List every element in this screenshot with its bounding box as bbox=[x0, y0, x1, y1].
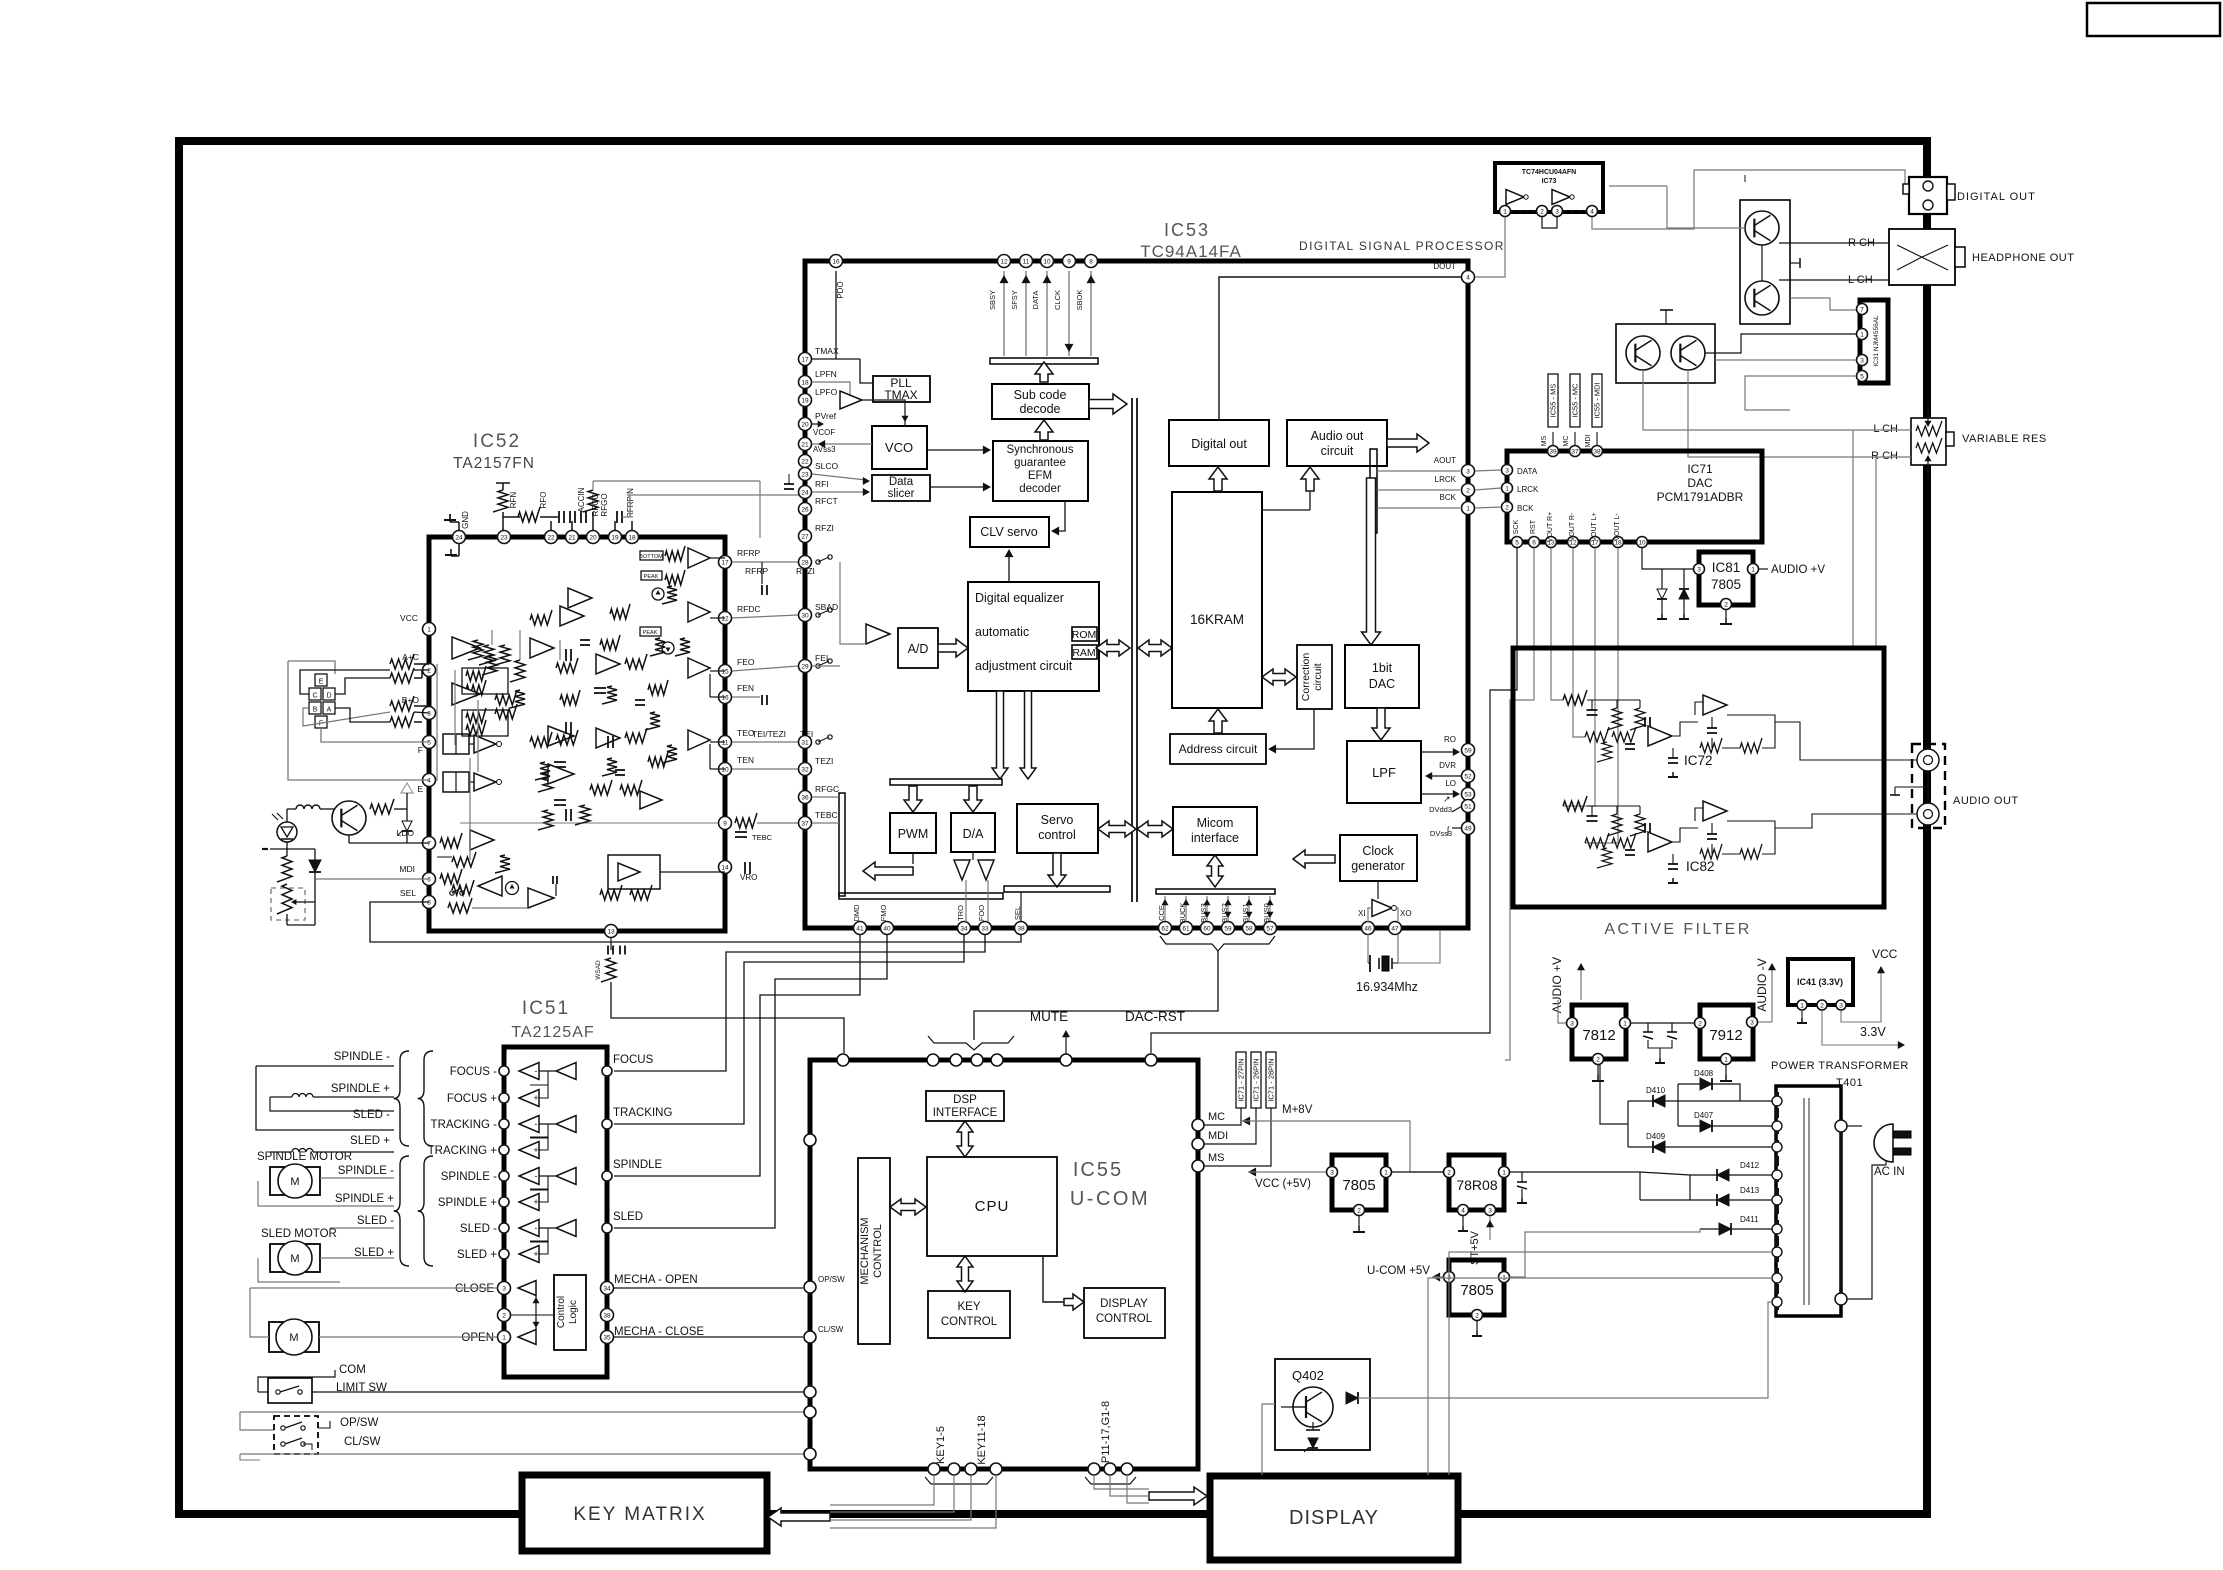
svg-text:SLED -: SLED - bbox=[357, 1215, 394, 1227]
svg-text:PVref: PVref bbox=[815, 411, 837, 421]
boxed label IC71-28PIN bbox=[1266, 1052, 1276, 1108]
svg-text:DISPLAY: DISPLAY bbox=[1289, 1507, 1379, 1529]
wire LO bbox=[1421, 793, 1456, 795]
wire MECHA-OPEN bbox=[614, 1287, 803, 1289]
zener diode bbox=[1308, 1438, 1318, 1448]
IC71 left pins bbox=[1502, 465, 1513, 476]
transformer taps bbox=[1772, 1096, 1782, 1106]
svg-text:22: 22 bbox=[801, 458, 809, 465]
connector DIGITAL OUT bbox=[1909, 177, 1947, 214]
variable resistor box bbox=[1911, 418, 1946, 465]
svg-text:16: 16 bbox=[721, 694, 729, 701]
svg-text:IC51: IC51 bbox=[522, 998, 570, 1019]
wire bbox=[710, 670, 725, 672]
svg-text:Micom: Micom bbox=[1197, 816, 1234, 830]
svg-text:21: 21 bbox=[568, 534, 576, 541]
svg-text:13: 13 bbox=[607, 928, 615, 935]
capacitor bbox=[594, 687, 606, 689]
IC51 side pins bbox=[499, 1066, 509, 1076]
sample-hold box bbox=[443, 734, 469, 754]
svg-text:-: - bbox=[535, 1119, 538, 1129]
wire bbox=[965, 880, 967, 922]
svg-text:2: 2 bbox=[1475, 1312, 1479, 1319]
op-amp bbox=[596, 654, 620, 674]
svg-text:R CH: R CH bbox=[1871, 450, 1898, 462]
capacitor bbox=[565, 649, 567, 661]
svg-text:7912: 7912 bbox=[1709, 1027, 1742, 1044]
svg-text:IC71 - 28PIN: IC71 - 28PIN bbox=[1267, 1058, 1276, 1101]
wire bbox=[414, 663, 429, 665]
hollow arrow bbox=[1149, 1487, 1207, 1505]
svg-text:POWER TRANSFORMER: POWER TRANSFORMER bbox=[1771, 1060, 1909, 1072]
svg-text:TC74HCU04AFN: TC74HCU04AFN bbox=[1522, 169, 1576, 176]
IC52 pin 13 bbox=[605, 925, 618, 938]
svg-text:20: 20 bbox=[801, 421, 809, 428]
svg-text:XO: XO bbox=[1400, 909, 1412, 918]
svg-text:Servo: Servo bbox=[1041, 813, 1074, 827]
resistor bbox=[575, 805, 590, 825]
IC55 right pins bbox=[1192, 1119, 1204, 1131]
boxed label IC71-26PIN bbox=[1251, 1052, 1261, 1108]
op-amp LPF bbox=[840, 391, 862, 409]
open triangle bbox=[401, 783, 413, 793]
svg-text:RFGC: RFGC bbox=[815, 784, 839, 794]
svg-text:IC55 - MC: IC55 - MC bbox=[1571, 383, 1580, 418]
wire M+8V bbox=[1242, 1117, 1250, 1126]
resistor bbox=[1916, 421, 1942, 436]
block Digital equalizer bbox=[968, 582, 1099, 691]
wire bbox=[240, 1411, 810, 1413]
wire bbox=[812, 474, 866, 480]
svg-text:F: F bbox=[418, 745, 423, 755]
svg-text:3: 3 bbox=[502, 1285, 506, 1292]
svg-text:AC IN: AC IN bbox=[1874, 1166, 1905, 1178]
svg-text:FOO: FOO bbox=[977, 905, 986, 921]
IC52 left pins bbox=[423, 623, 436, 636]
svg-text:Q402: Q402 bbox=[1292, 1368, 1324, 1383]
block Audio out circuit bbox=[1287, 420, 1387, 466]
transformer primary bbox=[1840, 1126, 1842, 1299]
IC73 pins bbox=[1500, 206, 1511, 217]
capacitor bbox=[555, 884, 557, 896]
wire bbox=[732, 741, 798, 743]
svg-text:IC81: IC81 bbox=[1712, 560, 1741, 575]
IC52 right pins bbox=[719, 556, 732, 569]
value label PEAK bbox=[640, 627, 661, 636]
svg-text:CL/SW: CL/SW bbox=[344, 1436, 381, 1448]
resistor bbox=[648, 752, 668, 767]
capacitor bbox=[784, 483, 794, 485]
wire bbox=[660, 871, 725, 873]
svg-text:3: 3 bbox=[1570, 1020, 1574, 1027]
svg-text:23: 23 bbox=[801, 471, 809, 478]
svg-text:SPINDLE +: SPINDLE + bbox=[335, 1193, 394, 1205]
wire bbox=[812, 491, 866, 493]
svg-text:38: 38 bbox=[1593, 448, 1601, 455]
svg-text:DIGITAL SIGNAL PROCESSOR: DIGITAL SIGNAL PROCESSOR bbox=[1299, 239, 1505, 253]
current source bbox=[652, 588, 664, 600]
op-amp bbox=[452, 637, 480, 659]
wire bbox=[1761, 245, 1763, 281]
svg-text:3.3V: 3.3V bbox=[1860, 1025, 1886, 1039]
regulator IC81 7805 bbox=[1699, 552, 1753, 605]
block PWM bbox=[890, 813, 936, 853]
wire bbox=[732, 561, 798, 563]
svg-text:2: 2 bbox=[502, 1312, 506, 1319]
wire bbox=[1927, 771, 1929, 803]
block Synchronous EFM decoder bbox=[993, 441, 1088, 501]
svg-text:MUTE: MUTE bbox=[1030, 1009, 1068, 1024]
svg-text:2: 2 bbox=[1505, 504, 1509, 511]
resistor bbox=[530, 610, 552, 625]
svg-text:MS: MS bbox=[1208, 1152, 1225, 1164]
svg-text:SLED MOTOR: SLED MOTOR bbox=[261, 1228, 337, 1240]
svg-text:adjustment circuit: adjustment circuit bbox=[975, 659, 1073, 673]
svg-text:6: 6 bbox=[427, 876, 431, 883]
op-amp bbox=[478, 876, 502, 896]
capacitor bbox=[744, 862, 746, 874]
bracket bbox=[1085, 1477, 1136, 1484]
svg-text:19: 19 bbox=[611, 534, 619, 541]
wire bbox=[1643, 370, 1790, 430]
svg-text:RST: RST bbox=[1530, 519, 1537, 534]
svg-text:LPF: LPF bbox=[1372, 765, 1396, 780]
micom bus pin arrows bbox=[1164, 896, 1166, 921]
op-amp bbox=[866, 624, 890, 644]
svg-text:37: 37 bbox=[801, 820, 809, 827]
transistor-array IC51 outline bbox=[504, 1047, 607, 1377]
svg-text:3: 3 bbox=[1466, 468, 1470, 475]
svg-text:KEY MATRIX: KEY MATRIX bbox=[573, 1504, 706, 1525]
svg-text:D407: D407 bbox=[1694, 1111, 1714, 1120]
hollow arrow bbox=[964, 786, 982, 812]
resistor bbox=[448, 898, 472, 913]
wire VOUT L+ bbox=[1563, 548, 1595, 806]
border frame bbox=[179, 141, 1927, 1514]
svg-text:CONTROL: CONTROL bbox=[1096, 1313, 1153, 1325]
block VCO bbox=[872, 426, 927, 469]
svg-text:automatic: automatic bbox=[975, 625, 1029, 639]
boxed label IC55-MS bbox=[1548, 374, 1558, 427]
DAC IC71 outline bbox=[1507, 451, 1762, 542]
svg-text:38: 38 bbox=[1017, 925, 1025, 932]
svg-text:1: 1 bbox=[1751, 566, 1755, 573]
svg-text:47: 47 bbox=[1391, 925, 1399, 932]
svg-text:7: 7 bbox=[1860, 306, 1864, 313]
svg-text:LPFO: LPFO bbox=[815, 387, 838, 397]
wire DVss3 bbox=[1452, 827, 1462, 829]
wire bbox=[1790, 298, 1856, 310]
resistor bbox=[538, 772, 553, 792]
capacitor bbox=[1521, 1172, 1523, 1182]
7812 pins bbox=[1567, 1018, 1578, 1029]
svg-text:MECHA - CLOSE: MECHA - CLOSE bbox=[614, 1326, 704, 1338]
wire bbox=[1847, 1125, 1862, 1127]
svg-text:BCK: BCK bbox=[1440, 493, 1457, 502]
wire bbox=[1449, 1252, 1772, 1475]
wire bbox=[1281, 1406, 1292, 1408]
hollow arrow bbox=[1209, 467, 1227, 491]
wire bbox=[1627, 1101, 1629, 1147]
svg-text:slicer: slicer bbox=[888, 488, 915, 500]
svg-text:AUDIO +V: AUDIO +V bbox=[1771, 564, 1825, 576]
hollow arrow bbox=[768, 1508, 830, 1526]
svg-text:61: 61 bbox=[1182, 925, 1190, 932]
block DSP INTERFACE bbox=[926, 1091, 1004, 1121]
op-amp bbox=[640, 791, 662, 809]
wire bbox=[414, 669, 429, 671]
svg-text:31: 31 bbox=[801, 739, 809, 746]
svg-text:ACTIVE FILTER: ACTIVE FILTER bbox=[1604, 921, 1751, 938]
svg-text:SBSY: SBSY bbox=[988, 290, 997, 310]
svg-text:ROM: ROM bbox=[1072, 629, 1097, 641]
svg-text:8: 8 bbox=[1089, 258, 1093, 265]
IC55 top pins bbox=[837, 1054, 849, 1066]
svg-text:P11-17,G1-8: P11-17,G1-8 bbox=[1100, 1401, 1112, 1463]
bracket bbox=[928, 1036, 1014, 1050]
svg-text:2: 2 bbox=[1724, 601, 1728, 608]
svg-text:D412: D412 bbox=[1740, 1161, 1760, 1170]
wire bbox=[469, 743, 474, 745]
wire bbox=[1475, 217, 1505, 277]
wire bbox=[1558, 1000, 1566, 1023]
resistor RFN bbox=[493, 490, 508, 512]
svg-text:M+8V: M+8V bbox=[1282, 1104, 1313, 1116]
svg-text:RFDC: RFDC bbox=[737, 604, 761, 614]
svg-text:18: 18 bbox=[628, 534, 636, 541]
svg-text:26: 26 bbox=[801, 506, 809, 513]
svg-text:TEN: TEN bbox=[737, 755, 754, 765]
svg-text:34: 34 bbox=[960, 925, 968, 932]
resistor bbox=[277, 856, 292, 882]
svg-text:GND: GND bbox=[461, 511, 470, 529]
svg-text:+: + bbox=[533, 1197, 538, 1207]
regulator 78R08 bbox=[1449, 1155, 1504, 1210]
svg-text:Digital equalizer: Digital equalizer bbox=[975, 591, 1064, 605]
block DISPLAY CONTROL bbox=[1084, 1288, 1165, 1338]
capacitor bbox=[554, 761, 566, 763]
svg-text:decoder: decoder bbox=[1019, 483, 1061, 495]
svg-text:9: 9 bbox=[1067, 258, 1071, 265]
wire bbox=[1377, 470, 1460, 472]
svg-text:14: 14 bbox=[721, 864, 729, 871]
resistor bbox=[510, 660, 525, 682]
capacitor ACCIN bbox=[580, 511, 582, 523]
wire bbox=[710, 741, 725, 743]
svg-text:34: 34 bbox=[603, 1285, 611, 1292]
inductor bbox=[292, 1149, 313, 1152]
boxed label IC71-27PIN bbox=[1236, 1052, 1246, 1108]
wire bbox=[1475, 470, 1501, 471]
block Clock generator bbox=[1340, 835, 1417, 881]
svg-text:DATA: DATA bbox=[1517, 467, 1538, 476]
svg-text:FEI: FEI bbox=[815, 653, 828, 663]
wire bbox=[288, 661, 335, 674]
regulator 7912 bbox=[1700, 1005, 1753, 1059]
value label BOTTOM bbox=[640, 551, 663, 560]
capacitor bbox=[635, 699, 645, 701]
svg-text:VCO: VCO bbox=[885, 440, 913, 455]
svg-text:51: 51 bbox=[1464, 803, 1472, 810]
svg-text:BOTTOM: BOTTOM bbox=[639, 554, 663, 560]
wire DVdd3 bbox=[1452, 806, 1462, 812]
block Sub code decode bbox=[992, 384, 1089, 419]
svg-text:22: 22 bbox=[547, 534, 555, 541]
block 16KRAM bbox=[1172, 492, 1262, 708]
svg-text:2: 2 bbox=[427, 667, 431, 674]
wire bbox=[1511, 210, 1536, 212]
svg-text:SPINDLE: SPINDLE bbox=[613, 1159, 663, 1171]
wire bbox=[300, 670, 390, 694]
svg-text:DAC-RST: DAC-RST bbox=[1125, 1009, 1185, 1024]
resistor bbox=[452, 880, 474, 895]
resistor RFO bbox=[518, 507, 540, 522]
IC31 pins bbox=[1857, 304, 1868, 315]
IC81 pins bbox=[1694, 564, 1705, 575]
svg-text:6: 6 bbox=[1532, 539, 1536, 546]
svg-text:1: 1 bbox=[1623, 1020, 1627, 1027]
diode D413 bbox=[1717, 1194, 1729, 1206]
svg-text:32: 32 bbox=[801, 766, 809, 773]
svg-text:circuit: circuit bbox=[1312, 663, 1324, 691]
svg-text:A/D: A/D bbox=[908, 642, 929, 656]
wire bbox=[1358, 1302, 1772, 1398]
svg-text:4: 4 bbox=[1466, 274, 1470, 281]
title box top-right bbox=[2087, 3, 2220, 36]
svg-text:SPINDLE -: SPINDLE - bbox=[441, 1171, 497, 1183]
op-amp bbox=[528, 888, 554, 908]
svg-text:RO: RO bbox=[1444, 735, 1456, 744]
svg-text:DOUT: DOUT bbox=[1433, 262, 1456, 271]
resistor bbox=[662, 586, 677, 604]
7805 pins bbox=[1327, 1167, 1338, 1178]
svg-text:VRO: VRO bbox=[740, 873, 757, 882]
svg-text:3: 3 bbox=[1488, 1207, 1492, 1214]
transistor Q headphone L bbox=[1745, 281, 1779, 315]
wire bbox=[436, 664, 438, 781]
svg-text:12: 12 bbox=[1000, 258, 1008, 265]
svg-text:1: 1 bbox=[502, 1334, 506, 1341]
svg-text:EFM: EFM bbox=[1028, 470, 1052, 482]
wire VOUT R- bbox=[1573, 548, 1585, 737]
svg-text:1: 1 bbox=[1724, 1056, 1728, 1063]
svg-text:FOCUS -: FOCUS - bbox=[450, 1066, 497, 1078]
svg-text:TRO: TRO bbox=[956, 905, 965, 921]
transformer T401 bbox=[1776, 1086, 1841, 1316]
resistor bbox=[645, 712, 660, 730]
capacitor bbox=[558, 511, 560, 523]
svg-text:AUDIO OUT: AUDIO OUT bbox=[1953, 795, 2019, 807]
svg-text:VOUT L-: VOUT L- bbox=[1614, 513, 1621, 541]
zener diode bbox=[1657, 589, 1667, 599]
resistor bbox=[648, 680, 668, 695]
wire bbox=[1321, 1359, 1323, 1392]
wire bbox=[472, 907, 528, 909]
IC53 bottom pins bbox=[854, 922, 867, 935]
svg-text:1: 1 bbox=[1860, 331, 1864, 338]
svg-text:MDI: MDI bbox=[1208, 1130, 1228, 1142]
svg-text:SPINDLE MOTOR: SPINDLE MOTOR bbox=[257, 1151, 352, 1163]
wire bbox=[540, 516, 558, 518]
svg-text:AUDIO -V: AUDIO -V bbox=[1755, 958, 1769, 1011]
wire bbox=[1055, 501, 1065, 531]
diode D407 bbox=[1700, 1120, 1712, 1132]
wire bbox=[1775, 814, 1917, 828]
boxed label IC55-MC bbox=[1570, 374, 1580, 427]
subcode pin arrows bbox=[1003, 271, 1005, 356]
wire bbox=[732, 696, 760, 698]
svg-text:78R08: 78R08 bbox=[1456, 1177, 1497, 1193]
svg-text:17: 17 bbox=[801, 356, 809, 363]
svg-text:24: 24 bbox=[801, 489, 809, 496]
bus lines bbox=[1131, 398, 1133, 902]
bracket bbox=[925, 1477, 993, 1484]
wire bbox=[1667, 186, 1745, 228]
svg-text:10: 10 bbox=[1638, 539, 1646, 546]
svg-text:SEL: SEL bbox=[400, 888, 416, 898]
svg-text:11: 11 bbox=[722, 739, 729, 746]
wire bbox=[862, 400, 905, 426]
svg-text:1: 1 bbox=[1384, 1169, 1388, 1176]
svg-text:U-COM: U-COM bbox=[1070, 1188, 1150, 1210]
block KEY CONTROL bbox=[928, 1291, 1010, 1338]
svg-text:+: + bbox=[533, 1145, 538, 1155]
bus bar bbox=[990, 358, 1098, 364]
svg-text:SLCO: SLCO bbox=[815, 461, 839, 471]
svg-text:PEAK: PEAK bbox=[644, 574, 659, 580]
transformer core bbox=[1803, 1098, 1805, 1305]
svg-text:62: 62 bbox=[1161, 925, 1169, 932]
inverter bbox=[1506, 190, 1524, 205]
svg-text:TEI/TEZI: TEI/TEZI bbox=[752, 729, 786, 739]
svg-text:49: 49 bbox=[1464, 825, 1472, 832]
brace bbox=[394, 1156, 409, 1266]
svg-text:DATA: DATA bbox=[1031, 291, 1040, 310]
wire bbox=[732, 666, 798, 671]
capacitor RFRPIN bbox=[616, 511, 618, 523]
wire bbox=[1852, 430, 1854, 465]
svg-text:LRCK: LRCK bbox=[1435, 475, 1457, 484]
svg-text:RFRP: RFRP bbox=[737, 548, 760, 558]
svg-text:-: - bbox=[535, 1066, 538, 1076]
bus bar PWM bbox=[890, 779, 1002, 785]
svg-text:3: 3 bbox=[1697, 566, 1701, 573]
transistor Q bbox=[1671, 336, 1705, 370]
svg-text:10: 10 bbox=[1043, 258, 1051, 265]
IC53 top pins bbox=[830, 255, 843, 268]
svg-text:A: A bbox=[327, 707, 332, 714]
switch OP/CL dashed bbox=[274, 1416, 318, 1454]
svg-text:DSP: DSP bbox=[953, 1094, 977, 1106]
regulator 7812 bbox=[1572, 1005, 1626, 1059]
wire bbox=[1744, 175, 1746, 182]
svg-text:16KRAM: 16KRAM bbox=[1190, 612, 1244, 627]
block Data slicer bbox=[872, 475, 930, 501]
svg-text:VOUT R-: VOUT R- bbox=[1569, 512, 1576, 541]
svg-text:28: 28 bbox=[801, 559, 809, 566]
svg-text:HEADPHONE OUT: HEADPHONE OUT bbox=[1972, 252, 2074, 264]
svg-text:U-COM +5V: U-COM +5V bbox=[1367, 1265, 1430, 1277]
wire bbox=[1476, 1321, 1478, 1331]
transistor Q402 bbox=[1293, 1387, 1333, 1427]
svg-text:FOCUS +: FOCUS + bbox=[447, 1093, 497, 1105]
svg-text:KEY: KEY bbox=[957, 1301, 980, 1313]
transistor Q headphone R bbox=[1745, 211, 1779, 245]
AC plug bbox=[1874, 1124, 1893, 1162]
wire bbox=[293, 901, 315, 903]
hollow arrow bbox=[992, 691, 1008, 779]
svg-text:control: control bbox=[1038, 828, 1076, 842]
